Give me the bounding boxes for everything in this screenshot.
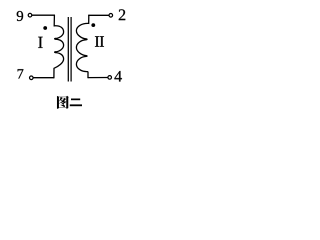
- label 4: [114, 71, 121, 82]
- winding II (secondary coil): [76, 15, 88, 77]
- terminal 7 circle: [30, 76, 34, 80]
- caption char 二 top bar: [71, 99, 80, 101]
- wire terminal 2 to winding II top: [89, 14, 109, 16]
- label I (winding I): [38, 37, 42, 48]
- label 7: [18, 69, 24, 78]
- terminal 4 circle: [108, 76, 112, 80]
- terminal 2 circle: [109, 14, 113, 18]
- label 2: [119, 9, 125, 20]
- winding I (primary coil): [54, 15, 64, 77]
- polarity dot winding II: [91, 23, 95, 27]
- label 9: [17, 11, 23, 21]
- core line left: [67, 17, 69, 82]
- caption char 图: [57, 96, 69, 109]
- core line right: [70, 17, 72, 82]
- wire winding II bottom to terminal 4: [88, 77, 108, 79]
- label II (winding II) first I: [95, 36, 99, 46]
- wire winding I bottom to terminal 7: [33, 77, 54, 79]
- terminal 9 circle: [28, 13, 32, 17]
- caption char 二 bottom bar: [70, 104, 82, 106]
- polarity dot winding I: [43, 26, 47, 30]
- wire terminal 9 to winding I top: [32, 14, 54, 16]
- label II (winding II) second I: [100, 36, 104, 46]
